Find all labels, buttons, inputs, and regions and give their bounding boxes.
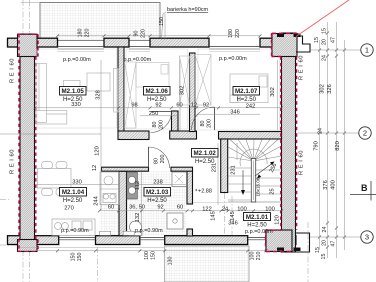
interior wall M2.1.05/M2.1.06 divider: [118, 47, 124, 132]
top right corner tabs: [277, 34, 284, 38]
furniture bed M2.1.07: [230, 74, 268, 103]
stair central rail: [251, 159, 255, 203]
svg-text:80: 80: [154, 158, 160, 164]
svg-text:12: 12: [191, 103, 197, 109]
svg-text:302: 302: [270, 87, 276, 97]
svg-text:330: 330: [71, 102, 81, 108]
stair left wall: [221, 139, 228, 193]
svg-text:120: 120: [95, 146, 101, 156]
svg-text:244: 244: [94, 196, 100, 206]
svg-text:R E I 60: R E I 60: [10, 149, 16, 174]
svg-text:376: 376: [323, 180, 329, 190]
dimension lines gray: [0, 14, 282, 251]
svg-text:M2.1.04: M2.1.04: [62, 189, 85, 196]
room label M2.1.07: [233, 87, 260, 104]
svg-text:231: 231: [231, 165, 237, 175]
svg-text:H=2.50: H=2.50: [247, 223, 267, 229]
exterior bottom wall chunk A: [8, 236, 59, 245]
svg-text:15: 15: [314, 37, 320, 43]
svg-text:346: 346: [230, 110, 240, 116]
window top W3: [209, 46, 260, 48]
svg-text:M2.1.07: M2.1.07: [235, 88, 258, 95]
svg-text:150: 150: [71, 253, 77, 262]
svg-text:400: 400: [331, 180, 337, 190]
room label M2.1.04: [60, 188, 87, 205]
svg-text:100: 100: [237, 207, 247, 213]
svg-text:100: 100: [265, 207, 275, 213]
svg-text:24: 24: [322, 55, 328, 61]
svg-text:145: 145: [230, 211, 236, 221]
room label M2.1.05: [60, 87, 87, 104]
svg-text:180: 180: [228, 29, 234, 38]
svg-text:M2.1.06: M2.1.06: [146, 88, 169, 95]
outer sill line bottom: [20, 247, 165, 249]
chair 2: [56, 162, 67, 169]
kitchen counter along wall: [52, 172, 119, 236]
svg-text:24: 24: [322, 227, 328, 233]
right side dimension chain lines: [298, 22, 361, 258]
kitchen counter bottom: [52, 219, 95, 236]
chair 4: [56, 189, 67, 196]
dining table M2.1.04: [38, 162, 72, 196]
svg-text:330: 330: [72, 180, 82, 186]
svg-text:H=2.50: H=2.50: [147, 198, 167, 204]
svg-text:120: 120: [275, 215, 281, 225]
bathroom shower: [167, 213, 183, 229]
svg-text:M2.1.05: M2.1.05: [62, 88, 85, 95]
top right corner step detail: [296, 36, 310, 52]
interior wall stub T: [172, 111, 179, 131]
stair radial winder treads: [193, 140, 281, 203]
svg-text:60: 60: [108, 205, 114, 211]
closet X left of divider: [180, 56, 190, 105]
floor inset outline M2.1.05: [37, 49, 280, 130]
stair walk line with arrow: [242, 170, 244, 191]
dimension tick slashes: [34, 32, 347, 253]
svg-text:R E I 60: R E I 60: [299, 150, 305, 175]
bathroom vanity unit: [127, 172, 138, 199]
exterior bottom wall chunk C: [165, 236, 248, 245]
svg-text:220: 220: [141, 29, 147, 38]
svg-text:145: 145: [211, 211, 217, 221]
svg-text:100: 100: [250, 252, 256, 261]
svg-text:18x16.06: 18x16.06: [256, 177, 261, 196]
svg-text:302: 302: [180, 86, 186, 96]
closet X M2.1.07: [195, 55, 211, 106]
svg-text:p.p.=0.90m: p.p.=0.90m: [61, 228, 89, 234]
svg-text:150: 150: [159, 17, 165, 26]
svg-text:326: 326: [327, 84, 333, 94]
svg-text:80: 80: [200, 121, 206, 127]
washing machine: [172, 172, 187, 187]
furniture sofa M2.1.05: [36, 64, 118, 125]
bathroom WC: [130, 221, 142, 233]
svg-text:B: B: [361, 183, 368, 193]
svg-text:p.p.=0.00m: p.p.=0.00m: [245, 229, 273, 235]
stair bottom edge: [228, 201, 281, 203]
stair walk line diagonal 256: [255, 162, 274, 176]
axis circle 2: [359, 127, 371, 139]
terrace bottom: [165, 246, 249, 282]
svg-text:20: 20: [322, 39, 328, 45]
svg-text:210: 210: [256, 252, 262, 261]
bathroom top wall left part: [102, 167, 149, 171]
svg-text:90: 90: [134, 31, 140, 37]
svg-text:p.p.=0.00m: p.p.=0.00m: [63, 57, 91, 63]
svg-text:25: 25: [270, 188, 276, 194]
svg-text:12: 12: [92, 165, 98, 171]
furniture wardrobe M2.1.05: [114, 69, 119, 113]
exterior top wall chunk B: [104, 38, 129, 47]
left wall top column: [18, 34, 38, 56]
hall top wall band: [219, 132, 282, 140]
svg-text:231: 231: [212, 163, 218, 173]
bathroom top wall right part: [171, 167, 193, 171]
svg-text:15: 15: [315, 247, 321, 253]
svg-text:302: 302: [320, 84, 326, 94]
furniture bed M2.1.06: [136, 63, 169, 88]
svg-text:790: 790: [314, 141, 320, 151]
exterior top wall chunk C: [150, 38, 209, 47]
svg-text:130: 130: [168, 257, 174, 266]
bathroom tiled floor: [127, 171, 188, 235]
balcony top with railing: [40, 3, 160, 41]
furniture bed M2.1.05: [87, 73, 110, 91]
window bottom W5: [140, 236, 165, 238]
stair straight treads right flight: [256, 169, 282, 171]
svg-text:328: 328: [96, 90, 102, 100]
hall left wall: [187, 170, 193, 204]
fire wall red dashed outline right: [280, 57, 282, 231]
interior wall M2.1.06/M2.1.07 divider: [190, 53, 196, 132]
svg-text:15: 15: [322, 28, 328, 34]
axis circle 1: [361, 44, 373, 56]
svg-text:98: 98: [131, 103, 137, 109]
window sill inner lines top: [58, 51, 261, 53]
svg-text:24: 24: [318, 128, 324, 134]
svg-text:92: 92: [155, 103, 161, 109]
svg-text:92: 92: [203, 103, 209, 109]
svg-text:15: 15: [321, 254, 327, 260]
svg-text:H=2.50: H=2.50: [236, 97, 256, 103]
svg-text:24: 24: [222, 207, 228, 213]
svg-text:132: 132: [135, 213, 141, 223]
svg-text:2: 2: [363, 129, 367, 138]
svg-text:200: 200: [207, 119, 213, 128]
svg-text:112: 112: [135, 181, 141, 190]
svg-text:270: 270: [64, 206, 74, 212]
svg-text:238: 238: [153, 180, 163, 186]
fire wall red dashed outline left: [18, 33, 298, 251]
svg-text:200: 200: [159, 120, 165, 129]
stair winder arc: [240, 149, 267, 166]
svg-text:3: 3: [365, 233, 369, 242]
svg-text:p.p.=0.90m: p.p.=0.90m: [135, 228, 163, 234]
interior wall below M2.1.05 horizontal: [118, 131, 149, 140]
wardrobe X M2.1.06: [125, 55, 212, 129]
door corridor to bathroom arc: [149, 147, 170, 168]
window bottom W4: [59, 236, 96, 238]
door hall to M2.1.07 arc: [192, 107, 215, 130]
hall wall bottom stub: [187, 229, 193, 236]
door M2.1.06 to corridor arc: [149, 107, 215, 168]
radiator bathroom: [123, 231, 134, 235]
kitchen bathroom divider wall: [119, 171, 127, 236]
exterior top wall chunk A: [8, 38, 297, 244]
svg-text:M2.1.01: M2.1.01: [246, 214, 269, 221]
svg-text:150: 150: [77, 253, 83, 262]
svg-text:barierka h=90cm: barierka h=90cm: [167, 7, 209, 13]
svg-text:M2.1.02: M2.1.02: [194, 150, 217, 157]
svg-text:+2.88: +2.88: [198, 189, 212, 195]
svg-text:180: 180: [78, 29, 84, 38]
svg-text:242: 242: [246, 104, 256, 110]
svg-text:p.p.=0.00m: p.p.=0.00m: [219, 56, 247, 62]
chair 3: [42, 189, 53, 196]
svg-text:220: 220: [235, 29, 241, 38]
room label M2.1.03: [144, 188, 171, 205]
kitchen tiled patch: [100, 205, 120, 236]
exterior bottom wall right piece: [266, 236, 296, 245]
svg-text:150: 150: [151, 251, 157, 260]
svg-text:p.p.=0.00m: p.p.=0.00m: [124, 57, 152, 63]
svg-text:60: 60: [176, 103, 182, 109]
left fire wall: [20, 34, 35, 251]
floor inset outline M2.1.07: [198, 49, 280, 130]
svg-text:92: 92: [157, 205, 163, 211]
svg-text:R E I 60: R E I 60: [10, 58, 16, 83]
balcony slab edge: [21, 2, 40, 4]
radiator kitchen: [100, 231, 111, 235]
svg-text:100: 100: [144, 251, 150, 260]
exterior top wall right corner piece: [260, 38, 296, 47]
stair straight treads left flight: [228, 167, 251, 169]
room label M2.1.02: [192, 149, 219, 166]
left wall bottom column: [18, 240, 38, 252]
right wall bottom column: [266, 230, 292, 252]
chair 1: [42, 162, 53, 169]
svg-text:47: 47: [331, 37, 337, 43]
svg-text:47: 47: [331, 241, 337, 247]
exterior bottom wall chunk B: [96, 236, 140, 245]
right wall top column: [272, 34, 297, 57]
svg-text:200: 200: [160, 155, 166, 164]
svg-text:1: 1: [365, 46, 369, 55]
terrace door threshold: [248, 236, 266, 238]
floor inset outline M2.1.06: [126, 49, 188, 129]
window top W1: [20, 47, 266, 248]
svg-text:820: 820: [335, 141, 341, 151]
svg-text:250: 250: [149, 111, 159, 117]
window top W2: [129, 46, 150, 48]
interior wall band left of hall: [170, 131, 197, 139]
svg-text:220: 220: [85, 29, 91, 38]
svg-text:36, 50: 36, 50: [129, 205, 145, 211]
red diagonal roof line: [296, 0, 349, 37]
bottom right corner step detail: [296, 233, 310, 252]
svg-text:H=2.50: H=2.50: [63, 198, 83, 204]
svg-text:60: 60: [177, 205, 183, 211]
room label M2.1.01: [244, 213, 271, 229]
svg-text:20: 20: [322, 240, 328, 246]
svg-text:R E I 60: R E I 60: [299, 55, 305, 80]
svg-text:80: 80: [152, 122, 158, 128]
room label M2.1.06: [144, 87, 171, 104]
svg-text:M2.1.03: M2.1.03: [146, 189, 169, 196]
bottom right corner tabs: [277, 248, 284, 252]
right fire wall: [282, 33, 296, 252]
axis circle 3: [361, 231, 373, 243]
